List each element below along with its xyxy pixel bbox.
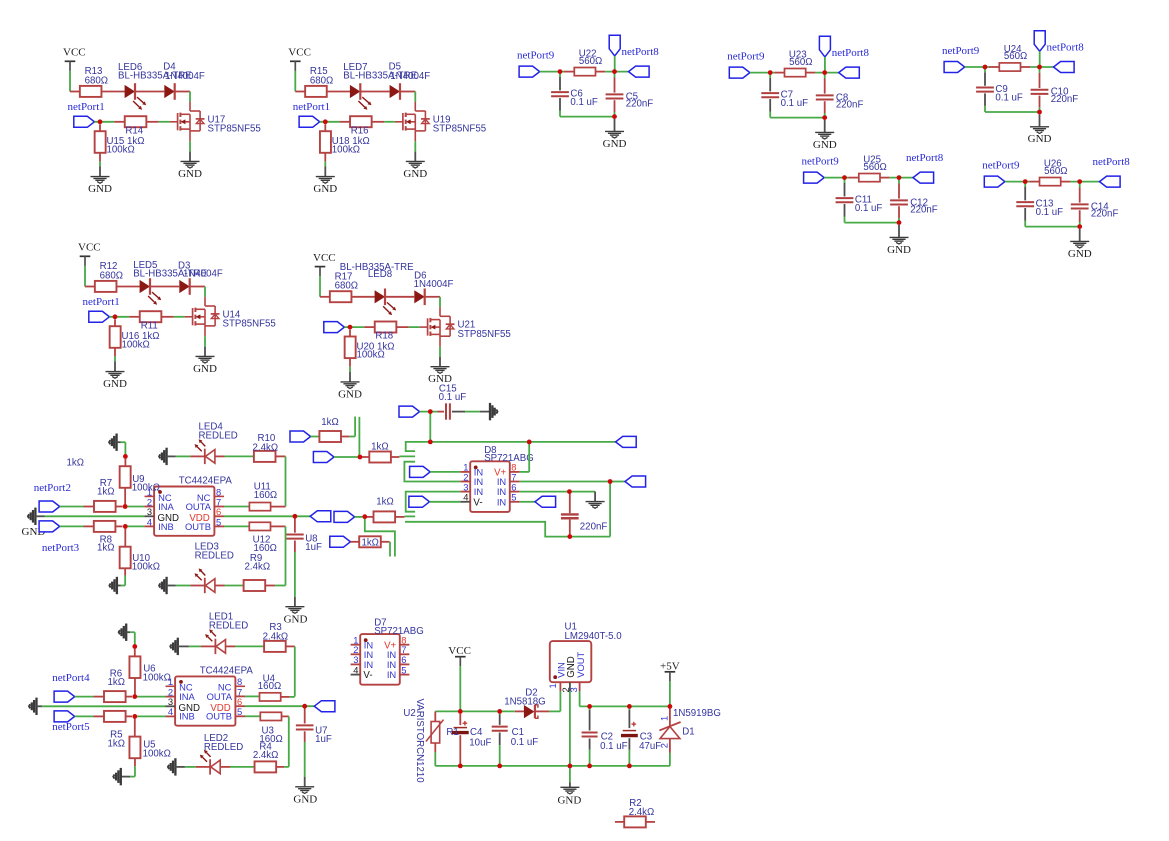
svg-text:100kΩ: 100kΩ [143,748,171,759]
svg-text:0.1 uF: 0.1 uF [855,203,883,214]
svg-text:2.4kΩ: 2.4kΩ [253,750,279,761]
svg-text:VCC: VCC [448,645,471,657]
svg-text:220nF: 220nF [580,521,608,532]
svg-text:IN: IN [364,659,373,670]
svg-text:IN: IN [474,486,483,497]
svg-text:0.1 uF: 0.1 uF [995,92,1023,103]
svg-text:0.1 uF: 0.1 uF [781,98,809,109]
svg-text:1kΩ: 1kΩ [321,417,338,428]
svg-text:0.1 uF: 0.1 uF [511,737,539,748]
svg-text:netPort8: netPort8 [1047,41,1085,53]
svg-text:1kΩ: 1kΩ [67,458,84,469]
svg-text:R18: R18 [375,331,393,342]
svg-text:220nF: 220nF [836,100,864,111]
svg-text:2.4kΩ: 2.4kΩ [263,631,289,642]
svg-text:netPort9: netPort9 [517,50,555,62]
svg-text:1kΩ: 1kΩ [97,487,114,498]
svg-text:2: 2 [659,743,670,748]
svg-text:1kΩ: 1kΩ [108,677,125,688]
svg-text:REDLED: REDLED [204,742,243,753]
svg-text:GND: GND [103,378,127,390]
svg-text:680Ω: 680Ω [335,281,358,292]
svg-text:100kΩ: 100kΩ [132,482,160,493]
svg-text:GND: GND [403,168,427,180]
svg-text:R11: R11 [141,320,158,331]
svg-text:GND: GND [313,183,337,195]
svg-text:IN: IN [497,496,506,507]
svg-text:OUTB: OUTB [185,521,211,532]
svg-text:220nF: 220nF [1051,94,1079,105]
svg-text:560Ω: 560Ω [579,56,602,67]
svg-text:REDLED: REDLED [209,620,248,631]
svg-text:10uF: 10uF [469,738,491,749]
svg-text:netPort9: netPort9 [942,45,980,57]
svg-text:1: 1 [659,716,670,721]
svg-text:OUTB: OUTB [206,711,232,722]
svg-text:netPort8: netPort8 [622,46,660,58]
svg-text:+5V: +5V [660,661,680,673]
svg-text:R14: R14 [125,125,143,136]
svg-text:V-: V- [363,670,372,681]
svg-text:netPort4: netPort4 [52,672,90,684]
svg-text:1N5919BG: 1N5919BG [673,708,721,719]
svg-text:INA: INA [158,501,174,512]
svg-text:GND: GND [1028,133,1052,145]
svg-text:GND: GND [338,388,362,400]
svg-text:STP85NF55: STP85NF55 [208,124,261,135]
svg-text:220nF: 220nF [910,205,938,216]
svg-text:680Ω: 680Ω [100,270,123,281]
svg-text:160Ω: 160Ω [258,681,281,692]
svg-text:1N4004F: 1N4004F [414,279,454,290]
svg-text:100kΩ: 100kΩ [132,561,160,572]
svg-text:VCC: VCC [63,47,86,59]
svg-text:100kΩ: 100kΩ [332,144,360,155]
svg-text:2.4kΩ: 2.4kΩ [253,442,279,453]
svg-text:IN: IN [387,669,396,680]
svg-text:netPort9: netPort9 [727,51,765,63]
svg-text:netPort8: netPort8 [832,47,870,59]
svg-text:560Ω: 560Ω [1044,166,1067,177]
svg-text:LED8: LED8 [368,269,392,280]
svg-text:GND: GND [178,168,202,180]
svg-text:TC4424EPA: TC4424EPA [200,665,254,676]
svg-text:netPort9: netPort9 [982,160,1020,172]
svg-text:STP85NF55: STP85NF55 [223,319,276,330]
svg-text:INB: INB [179,711,195,722]
svg-text:1kΩ: 1kΩ [361,538,378,549]
svg-text:INA: INA [179,691,195,702]
svg-text:GND: GND [88,183,112,195]
svg-text:OUTA: OUTA [207,691,233,702]
svg-text:VCC: VCC [78,242,101,254]
svg-text:REDLED: REDLED [199,431,238,442]
svg-text:0.1 uF: 0.1 uF [439,392,467,403]
svg-text:INB: INB [158,521,174,532]
svg-text:STP85NF55: STP85NF55 [458,329,511,340]
svg-text:netPort8: netPort8 [1093,156,1131,168]
svg-text:GND: GND [887,244,911,256]
svg-text:D1: D1 [682,726,694,737]
svg-text:1kΩ: 1kΩ [371,442,388,453]
svg-text:netPort9: netPort9 [802,156,840,168]
svg-text:netPort3: netPort3 [42,542,80,554]
svg-text:1uF: 1uF [305,542,322,553]
svg-text:560Ω: 560Ω [789,57,812,68]
svg-text:GND: GND [193,363,217,375]
svg-text:680Ω: 680Ω [85,75,108,86]
svg-text:0.1 uF: 0.1 uF [600,741,628,752]
svg-text:0.1 uF: 0.1 uF [570,97,598,108]
svg-text:560Ω: 560Ω [1004,51,1027,62]
svg-text:netPort2: netPort2 [34,482,71,494]
svg-text:100kΩ: 100kΩ [357,350,385,361]
svg-text:0.1 uF: 0.1 uF [1036,207,1064,218]
svg-text:GND: GND [603,138,627,150]
svg-text:R1: R1 [446,727,458,738]
svg-text:1kΩ: 1kΩ [108,738,125,749]
svg-text:SP721ABG: SP721ABG [374,626,424,637]
svg-text:100kΩ: 100kΩ [107,144,135,155]
svg-text:GND: GND [1068,248,1092,260]
svg-text:560Ω: 560Ω [863,162,886,173]
svg-text:netPort1: netPort1 [83,296,120,308]
svg-text:2.4kΩ: 2.4kΩ [245,562,271,573]
svg-text:VCC: VCC [288,47,311,59]
svg-text:R16: R16 [351,125,369,136]
svg-text:STP85NF55: STP85NF55 [433,124,486,135]
svg-text:1N4004F: 1N4004F [183,269,223,280]
svg-text:1kΩ: 1kΩ [376,496,393,507]
svg-text:100kΩ: 100kΩ [122,339,150,350]
svg-text:GND: GND [557,795,581,807]
svg-text:SP721ABG: SP721ABG [484,453,534,464]
svg-text:160Ω: 160Ω [254,490,277,501]
svg-text:netPort1: netPort1 [293,101,330,113]
svg-text:REDLED: REDLED [195,550,234,561]
svg-text:TC4424EPA: TC4424EPA [179,476,233,487]
svg-text:LM2940T-5.0: LM2940T-5.0 [565,631,623,642]
svg-text:netPort8: netPort8 [906,152,944,164]
svg-text:220nF: 220nF [626,99,654,110]
svg-text:OUTA: OUTA [186,501,212,512]
svg-text:1kΩ: 1kΩ [97,543,114,554]
svg-text:1N4004F: 1N4004F [390,71,430,82]
svg-text:1N4004F: 1N4004F [165,71,205,82]
svg-text:netPort1: netPort1 [68,101,105,113]
svg-text:VOUT: VOUT [575,651,586,677]
svg-text:VCC: VCC [313,252,336,264]
svg-text:GND: GND [813,139,837,151]
svg-text:1uF: 1uF [315,734,332,745]
svg-text:1: 1 [547,683,558,688]
svg-text:GND: GND [284,613,308,625]
svg-text:220nF: 220nF [1091,209,1119,220]
svg-text:100kΩ: 100kΩ [143,673,171,684]
svg-text:1N5818G: 1N5818G [504,697,545,708]
svg-text:680Ω: 680Ω [310,75,333,86]
svg-text:GND: GND [293,793,317,805]
svg-text:V-: V- [473,497,482,508]
svg-text:VARISTORCN1210: VARISTORCN1210 [414,699,425,784]
